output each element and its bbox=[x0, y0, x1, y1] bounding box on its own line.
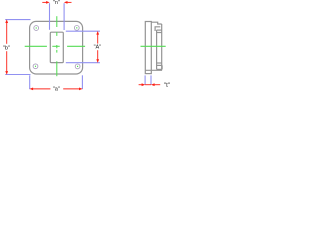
side view bottom step right edge bbox=[161, 65, 163, 69]
dim a: red line right bbox=[63, 88, 79, 90]
dim a: left arrow bbox=[30, 88, 34, 91]
side view bottom line bbox=[145, 69, 162, 71]
svg-text:"t": "t" bbox=[164, 83, 170, 89]
side view slab bbox=[145, 22, 151, 74]
dim a: red line left bbox=[33, 88, 51, 90]
dim A: top arrow bbox=[96, 31, 99, 35]
side view top lip bbox=[151, 22, 161, 24]
dim b: extension line bottom bbox=[5, 74, 30, 76]
green horizontal centerline front bbox=[25, 45, 85, 47]
dim t: red left tail bbox=[139, 84, 143, 86]
dim n: red line right tail bbox=[67, 1, 72, 3]
svg-text:"a": "a" bbox=[53, 86, 60, 92]
dim t: left arrow bbox=[142, 83, 146, 86]
dim b: red line upper bbox=[6, 23, 8, 44]
side view inner edge bbox=[156, 30, 158, 69]
dim n: red line left tail bbox=[42, 1, 46, 3]
hole bottom-left bbox=[33, 64, 38, 69]
side view inner rect top chamfer bbox=[157, 32, 162, 34]
dim t: right arrow bbox=[151, 83, 155, 86]
hole top-right bbox=[74, 26, 79, 31]
dim b: extension line top bbox=[5, 19, 30, 21]
dim A: extension line top bbox=[66, 30, 100, 32]
side view outer right edge bbox=[161, 24, 163, 69]
dim A: extension line bottom bbox=[66, 62, 100, 64]
side view inner rect top bbox=[157, 29, 162, 31]
dim a: extension line left bbox=[29, 75, 31, 89]
svg-text:"b": "b" bbox=[3, 46, 10, 52]
dim n: extension line right bbox=[63, 3, 65, 30]
dim t: extension line left bbox=[144, 75, 146, 85]
hole top-left bbox=[34, 26, 39, 31]
hole bottom-right bbox=[75, 64, 80, 69]
dim n: right arrow bbox=[64, 1, 68, 4]
dim a: extension line right bbox=[81, 75, 83, 89]
dim A: bottom arrow bbox=[96, 59, 99, 63]
dim n: extension line left bbox=[49, 3, 51, 30]
side view neck step bbox=[155, 27, 160, 31]
dim A: red line upper bbox=[97, 34, 99, 43]
dim b: top arrow bbox=[5, 19, 8, 23]
svg-text:"A": "A" bbox=[94, 45, 102, 51]
central boss rectangle bbox=[50, 32, 63, 62]
dim a: right arrow bbox=[79, 88, 83, 91]
dim A: red line lower bbox=[97, 50, 99, 60]
green vertical centerline front bbox=[56, 16, 58, 76]
dim n: left arrow bbox=[46, 1, 50, 4]
side view bottom step top bbox=[157, 64, 163, 66]
dim t: right tail bbox=[154, 84, 160, 86]
dim t: middle segment bbox=[145, 84, 151, 86]
green centerline side bbox=[141, 45, 166, 47]
front view plate outline bbox=[30, 21, 83, 74]
side view inner rect bottom bbox=[157, 62, 162, 64]
dim b: red line lower bbox=[6, 51, 8, 71]
dim t: extension line right bbox=[150, 75, 152, 85]
svg-text:"n": "n" bbox=[53, 0, 60, 6]
dim b: bottom arrow bbox=[5, 71, 8, 75]
side view bottom step bottom bbox=[157, 68, 163, 70]
